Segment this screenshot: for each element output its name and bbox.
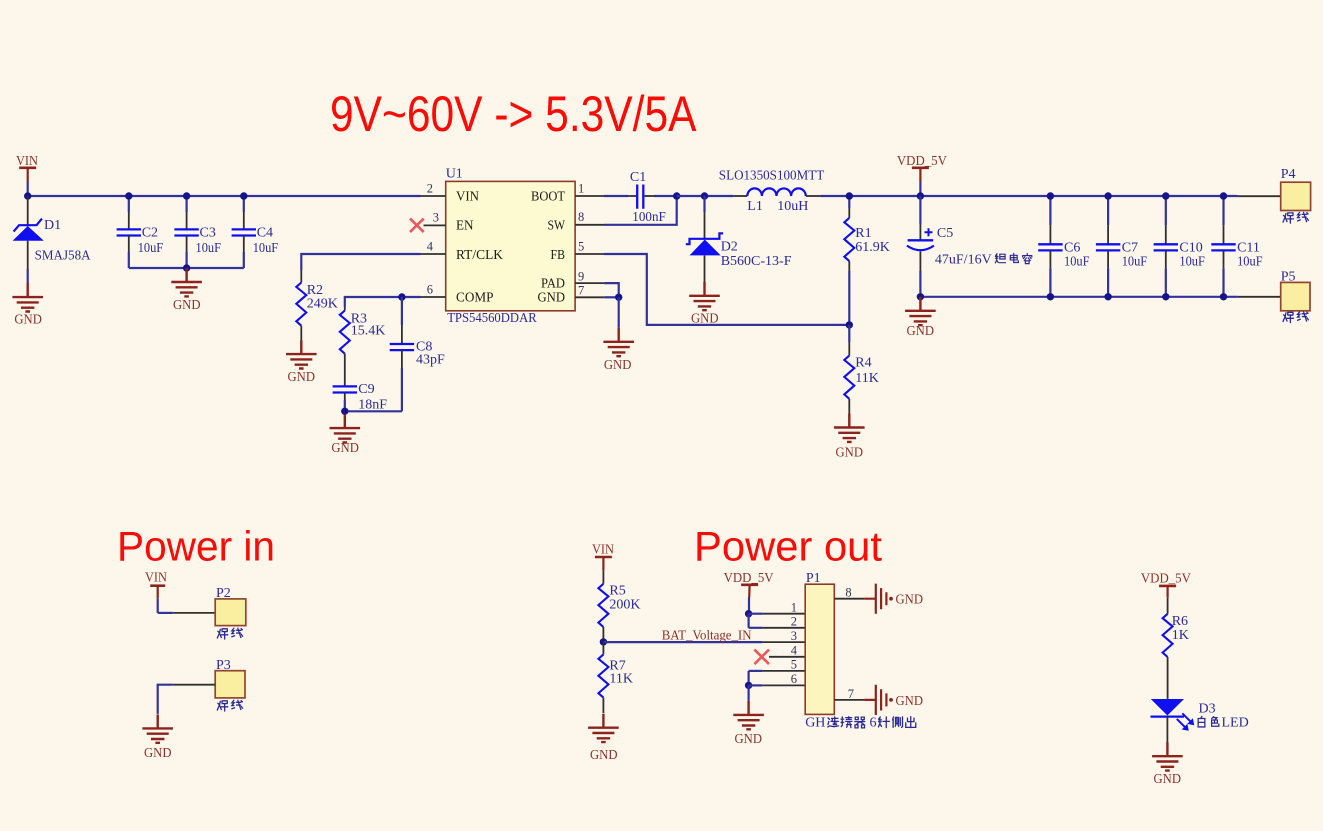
label GH connector 6pin note [805, 715, 916, 730]
capacitor C10 [1154, 196, 1178, 297]
U1 pin 4 RT/CLK [421, 239, 504, 263]
svg-text:6: 6 [427, 282, 433, 296]
junction node C6 top [1047, 192, 1054, 199]
wire pin6 to GND [747, 685, 749, 701]
svg-text:7: 7 [578, 284, 584, 298]
resistor R5 [598, 571, 608, 642]
svg-text:GND: GND [896, 694, 924, 709]
wire VDD riser pins 1-2 [747, 614, 749, 628]
capacitor C9 [333, 386, 357, 411]
svg-text:10uF: 10uF [1179, 255, 1205, 270]
svg-text:9: 9 [578, 270, 584, 284]
junction node P1 pin6 [745, 682, 752, 689]
svg-text:GND: GND [896, 593, 924, 608]
svg-text:C1: C1 [630, 170, 646, 185]
svg-text:5: 5 [791, 657, 797, 671]
wire SW to D2 [677, 195, 734, 197]
junction node C10 top [1162, 192, 1169, 199]
wire output GND bus [920, 296, 1237, 298]
junction node C2 top [125, 192, 132, 199]
svg-text:10uF: 10uF [196, 241, 222, 256]
wire U1 PAD elbow [604, 283, 619, 297]
svg-text:1K: 1K [1172, 628, 1189, 643]
wire P1 pin 2 [749, 627, 806, 629]
U1 pin 1 BOOT [531, 181, 604, 204]
label P2 soldered-wire [217, 628, 242, 639]
svg-text:10uF: 10uF [1237, 255, 1263, 270]
svg-text:P2: P2 [216, 586, 231, 601]
svg-text:COMP: COMP [456, 291, 494, 306]
junction node U1 GND [615, 294, 622, 301]
capacitor C11 [1211, 196, 1235, 297]
U1 pin 6 COMP [421, 282, 494, 305]
svg-text:GND: GND [836, 445, 864, 460]
svg-text:11K: 11K [609, 672, 633, 687]
svg-text:GND: GND [331, 441, 359, 456]
svg-text:18nF: 18nF [358, 397, 387, 412]
wire P1 pin 7 [834, 687, 864, 701]
svg-text:C7: C7 [1122, 240, 1138, 255]
svg-text:100nF: 100nF [632, 210, 666, 225]
power flag VDD_5V (top) [897, 154, 947, 196]
svg-text:PAD: PAD [541, 277, 565, 292]
svg-text:43pF: 43pF [416, 353, 445, 368]
svg-text:Power out: Power out [694, 522, 882, 569]
svg-text:GND: GND [1154, 772, 1182, 787]
no-connect X on P1 pin 4 [754, 650, 769, 665]
svg-text:GND: GND [538, 291, 566, 306]
junction node C9 bottom [341, 408, 348, 415]
ground (pin 7 rotated) [864, 685, 893, 715]
svg-text:61.9K: 61.9K [855, 240, 890, 255]
svg-text:VIN: VIN [456, 189, 479, 204]
svg-text:C6: C6 [1064, 240, 1080, 255]
wire SW riser [604, 196, 677, 225]
svg-text:D2: D2 [721, 239, 738, 254]
junction node COMP/C8 [398, 293, 405, 300]
power flag VIN (divider) [592, 543, 614, 571]
capacitor C5 polarized [907, 196, 934, 297]
resistor R6 [1163, 598, 1173, 699]
junction node C10 bottom [1162, 293, 1169, 300]
svg-text:C4: C4 [257, 225, 273, 240]
U1 pin 8 SW [548, 210, 605, 234]
svg-text:GND: GND [14, 312, 42, 327]
connector pad P5 [1281, 282, 1310, 310]
ground GND (C5) [905, 297, 936, 325]
ground GND (R7) [588, 714, 619, 742]
junction node VIN [24, 192, 31, 199]
label C5 value 47uF/16V [935, 252, 1032, 267]
svg-text:GND: GND [590, 748, 618, 763]
svg-text:SW: SW [548, 219, 566, 234]
wire VIN to P2 [158, 612, 216, 614]
wire C8/C9 bottom [345, 410, 402, 412]
wire P1 pin 3 [762, 641, 805, 643]
ground GND (R4) [834, 414, 865, 442]
wire BAT_Voltage_IN [603, 641, 762, 643]
wire COMP node [345, 297, 421, 307]
wire P1 pin 8 [834, 586, 864, 600]
svg-text:TPS54560DDAR: TPS54560DDAR [447, 311, 537, 326]
wire riser pins 5-6 [747, 671, 749, 686]
power flag VDD_5V (LED) [1141, 572, 1191, 598]
junction node C7 bottom [1104, 293, 1111, 300]
junction node C7 top [1104, 192, 1111, 199]
svg-text:GND: GND [907, 324, 935, 339]
wire main VIN bus [28, 195, 421, 197]
IC U1 TPS54560DDAR body [446, 181, 575, 310]
U1 pin 9 PAD [541, 270, 604, 292]
svg-text:11K: 11K [855, 371, 879, 386]
svg-text:7: 7 [848, 687, 854, 701]
svg-text:EN: EN [456, 219, 474, 234]
power flag VIN (top-left) [16, 154, 38, 196]
wire stub to P5 [1238, 296, 1281, 298]
wire stub to P4 [1238, 195, 1281, 197]
U1 pin 2 VIN [421, 181, 480, 204]
svg-text:VDD_5V: VDD_5V [1141, 572, 1191, 587]
no-connect X on U1 pin 3 [410, 219, 424, 233]
svg-text:8: 8 [845, 586, 851, 600]
svg-text:6: 6 [791, 672, 797, 686]
svg-text:BAT_Voltage_IN: BAT_Voltage_IN [662, 629, 752, 644]
wire P1 pin 4 [769, 656, 805, 658]
svg-text:P1: P1 [806, 571, 821, 586]
svg-text:1: 1 [791, 600, 797, 614]
U1 pin 5 FB [551, 239, 605, 263]
svg-text:FB: FB [551, 248, 566, 263]
diode D1 TVS [13, 196, 44, 284]
junction node C5 bottom [917, 293, 924, 300]
resistor R1 [844, 196, 854, 325]
svg-text:GND: GND [604, 358, 632, 373]
svg-text:C5: C5 [937, 226, 953, 241]
svg-text:U1: U1 [446, 167, 463, 182]
svg-text:C11: C11 [1237, 240, 1260, 255]
svg-text:C3: C3 [200, 225, 216, 240]
wire U1 GND down [618, 297, 620, 328]
svg-text:GND: GND [173, 298, 201, 313]
power flag VDD_5V (power out) [724, 571, 774, 614]
U1 pin 7 GND [538, 284, 605, 306]
power flag VIN (power in) [145, 571, 167, 613]
ground GND (COMP network) [330, 414, 361, 442]
ground GND (D1) [12, 283, 43, 311]
svg-text:C10: C10 [1179, 240, 1202, 255]
junction node C3 top [183, 192, 190, 199]
junction node caps bottom [183, 264, 190, 271]
wire input caps bottom [129, 267, 244, 269]
connector pad P3 [215, 671, 245, 698]
connector pad P2 [215, 599, 246, 626]
svg-text:B560C-13-F: B560C-13-F [721, 254, 792, 269]
ground GND (P1 left) [733, 701, 764, 729]
svg-text:D1: D1 [44, 218, 61, 233]
wire output bus VDD [820, 195, 1237, 197]
junction node D2 [701, 192, 708, 199]
junction node P1 pin1 [745, 610, 752, 617]
ground GND (input caps) [171, 268, 202, 296]
svg-text:10uF: 10uF [1064, 255, 1090, 270]
svg-text:10uF: 10uF [138, 241, 164, 256]
svg-text:L1: L1 [747, 199, 763, 214]
junction node R1 top [846, 192, 853, 199]
svg-text:5: 5 [578, 239, 584, 253]
svg-text:BOOT: BOOT [531, 189, 565, 204]
connector pad P4 [1281, 182, 1311, 210]
svg-text:15.4K: 15.4K [351, 323, 386, 338]
ground GND (P3) [142, 714, 173, 742]
resistor R4 [844, 325, 854, 414]
junction node C11 bottom [1220, 293, 1227, 300]
svg-text:2: 2 [427, 181, 433, 195]
svg-text:Power in: Power in [117, 522, 275, 569]
svg-text:4: 4 [791, 643, 798, 657]
junction node C4 top [240, 192, 247, 199]
resistor R2 [296, 270, 306, 340]
svg-text:LED: LED [1222, 716, 1249, 731]
junction node C1/SW [673, 192, 680, 199]
resistor R3 [340, 307, 350, 386]
wire P1 pin 1 [749, 613, 806, 615]
svg-text:R5: R5 [609, 583, 625, 598]
capacitor C1 [637, 185, 677, 209]
svg-text:4: 4 [427, 239, 434, 253]
svg-text:200K: 200K [609, 597, 640, 612]
ground GND (D3) [1152, 742, 1183, 770]
label D3 value white LED [1198, 716, 1249, 731]
LED D3 [1151, 699, 1195, 743]
svg-text:C2: C2 [142, 225, 158, 240]
svg-text:D3: D3 [1199, 701, 1216, 716]
svg-text:47uF/16V: 47uF/16V [935, 252, 992, 267]
svg-text:C9: C9 [358, 382, 374, 397]
svg-text:RT/CLK: RT/CLK [456, 248, 503, 263]
svg-text:VIN: VIN [592, 543, 614, 558]
wire P1 pin 5 [749, 670, 806, 672]
svg-text:249K: 249K [307, 296, 338, 311]
capacitor C6 [1038, 196, 1062, 297]
capacitor C3 [174, 196, 198, 268]
svg-text:R1: R1 [855, 226, 871, 241]
capacitor C7 [1096, 196, 1120, 297]
ground GND (R2) [286, 340, 317, 368]
svg-text:10uH: 10uH [777, 199, 808, 214]
svg-text:P3: P3 [216, 658, 231, 673]
junction node C11 top [1220, 192, 1227, 199]
svg-text:3: 3 [433, 211, 439, 225]
svg-text:1: 1 [578, 181, 584, 195]
svg-text:3: 3 [791, 629, 797, 643]
svg-text:R6: R6 [1172, 614, 1188, 629]
label P4 soldered-wire [1283, 212, 1308, 223]
junction node C6 bottom [1047, 293, 1054, 300]
wire BOOT to C1 [604, 195, 636, 197]
svg-text:2: 2 [791, 615, 797, 629]
connector P1 box [805, 584, 834, 714]
wire P3 to GND [158, 685, 216, 714]
capacitor C8 [390, 297, 414, 411]
svg-text:P5: P5 [1281, 270, 1296, 285]
ground GND (U1) [603, 328, 634, 356]
capacitor C4 [232, 196, 256, 268]
diode D2 Schottky [686, 196, 723, 283]
resistor R7 [598, 642, 608, 713]
svg-text:10uF: 10uF [253, 241, 279, 256]
svg-text:GND: GND [735, 732, 763, 747]
svg-text:10uF: 10uF [1122, 255, 1148, 270]
wire P1 pin 6 [749, 684, 806, 686]
svg-text:VIN: VIN [145, 571, 167, 586]
svg-text:6: 6 [870, 715, 877, 730]
svg-text:9V~60V -> 5.3V/5A: 9V~60V -> 5.3V/5A [330, 86, 697, 142]
ground GND (D2) [689, 282, 720, 310]
ground (pin 8 rotated) [864, 584, 893, 614]
svg-text:SMAJ58A: SMAJ58A [35, 249, 92, 264]
svg-text:GH: GH [805, 715, 825, 730]
junction node FB/R1/R4 [846, 321, 853, 328]
svg-text:GND: GND [144, 746, 172, 761]
label P5 soldered-wire [1283, 312, 1308, 323]
wire FB to divider [604, 254, 849, 325]
wire RT/CLK to R2 [301, 254, 420, 270]
junction node VDD top [917, 192, 924, 199]
inductor L1 [733, 188, 820, 196]
svg-text:SLO1350S100MTT: SLO1350S100MTT [719, 168, 825, 183]
svg-text:GND: GND [288, 370, 316, 385]
label P3 soldered-wire [217, 700, 242, 711]
U1 pin 3 EN [424, 211, 474, 234]
svg-text:R4: R4 [855, 356, 871, 371]
wire U1 GND pin [604, 296, 619, 298]
svg-text:8: 8 [578, 210, 584, 224]
svg-text:P4: P4 [1281, 167, 1296, 182]
junction node BAT divider [600, 638, 607, 645]
capacitor C2 [117, 196, 141, 268]
